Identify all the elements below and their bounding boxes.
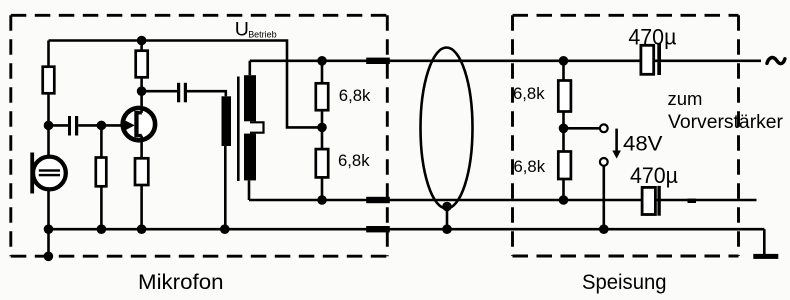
svg-text:zum: zum bbox=[668, 88, 703, 109]
resistor R6 6,8k bbox=[316, 149, 328, 177]
resistor R2 (gate) bbox=[96, 158, 107, 187]
wire source lead bbox=[140, 136, 143, 159]
wire capsule top lead bbox=[47, 125, 50, 157]
node primary ground junction bbox=[220, 224, 230, 234]
transformer TR1 secondary winding upper half bbox=[244, 75, 256, 121]
transformer TR1 primary winding bbox=[222, 96, 232, 146]
arrow 48V bbox=[612, 129, 621, 159]
wire R1 top lead bbox=[47, 41, 50, 67]
capacitor C3 470µ (top, polarized) bbox=[641, 44, 661, 76]
wire R1 bottom lead bbox=[47, 93, 50, 125]
wire cold line thick mark bbox=[688, 199, 697, 203]
node R5 top junction bbox=[317, 56, 327, 66]
resistor R1 bbox=[43, 67, 55, 94]
node R6 bottom junction bbox=[317, 195, 327, 205]
wire R6 bottom lead bbox=[321, 177, 324, 200]
node cable shield tip bbox=[442, 202, 452, 212]
resistor R3 (source) bbox=[135, 158, 148, 185]
node gate junction bbox=[97, 121, 107, 131]
wire R8 bottom lead bbox=[562, 179, 565, 200]
resistor R7 6,8k bbox=[558, 81, 571, 112]
wire drain lead bbox=[140, 77, 143, 113]
node capsule-C1 junction bbox=[44, 121, 54, 131]
enclosure dashed box Speisung bbox=[513, 15, 739, 256]
cable shield ellipse bbox=[421, 48, 473, 209]
wire U_Betrieb supply rail (top wire, down at right, to divider midpoint) bbox=[49, 41, 323, 128]
label U_Betrieb bbox=[235, 18, 277, 40]
svg-text:6,8k: 6,8k bbox=[338, 151, 370, 170]
svg-text:6,8k: 6,8k bbox=[513, 84, 545, 103]
transistor T1 JFET bbox=[123, 108, 155, 140]
transformer TR1 core bbox=[237, 77, 240, 182]
svg-text:U: U bbox=[235, 18, 249, 40]
connector pin shield (XLR) bbox=[366, 226, 390, 232]
wire to 48V upper terminal bbox=[564, 127, 600, 130]
wire R2 top lead bbox=[100, 125, 103, 157]
connector pin cold (XLR) bbox=[366, 197, 390, 203]
capacitor C4 470µ (bottom, polarized) bbox=[642, 186, 661, 216]
svg-text:470µ: 470µ bbox=[630, 163, 678, 188]
node capsule ground junction bbox=[44, 224, 54, 234]
wire secondary bottom lead bbox=[248, 180, 251, 200]
wire R7 top lead bbox=[562, 61, 565, 81]
wire R3 bottom lead bbox=[140, 185, 143, 229]
wire ground to housing bbox=[47, 229, 50, 256]
node housing ground junction bbox=[44, 251, 54, 261]
wire secondary top lead bbox=[249, 61, 252, 75]
capacitor C2 (drain coupling) bbox=[177, 83, 187, 103]
wire lower terminal to ground bbox=[602, 166, 605, 229]
svg-text:6,8k: 6,8k bbox=[339, 86, 371, 105]
svg-text:6,8k: 6,8k bbox=[514, 157, 546, 176]
node R8 bottom junction bbox=[559, 195, 569, 205]
node drain rail junction bbox=[137, 36, 147, 46]
AC output symbol ~ bbox=[767, 58, 785, 64]
wire R8 top lead bbox=[562, 128, 565, 151]
wire R5 top lead bbox=[321, 61, 324, 84]
wire capsule bottom lead bbox=[47, 190, 50, 230]
wire shield drain bbox=[446, 207, 449, 230]
wire ground drop at right bbox=[763, 229, 766, 254]
svg-text:48V: 48V bbox=[623, 133, 663, 156]
wire R2 bottom lead bbox=[100, 186, 103, 229]
terminal lower 48V contact bbox=[600, 158, 608, 166]
wire C1 to gate bbox=[78, 124, 126, 127]
transformer TR1 center tap stub bbox=[250, 122, 264, 132]
wire cold line (bottom) bbox=[249, 199, 757, 202]
node shield ground junction bbox=[442, 224, 452, 234]
resistor R8 6,8k bbox=[558, 152, 571, 180]
wire ground bus bbox=[49, 228, 765, 231]
wire drain coupling line bbox=[142, 90, 177, 93]
node divider midpoint junction bbox=[317, 123, 327, 133]
resistor R4 (drain) bbox=[136, 51, 148, 78]
label zum Vorverstärker bbox=[668, 88, 784, 133]
wire gate coupling line bbox=[49, 124, 69, 127]
enclosure dashed box Mikrofon bbox=[11, 15, 388, 256]
ground symbol bbox=[753, 254, 778, 259]
wire R6 top lead bbox=[321, 127, 324, 149]
wire C2 to transformer primary bbox=[187, 91, 226, 96]
node R7 top junction bbox=[559, 56, 569, 66]
wire R4 top lead bbox=[140, 41, 143, 51]
svg-text:Betrieb: Betrieb bbox=[248, 29, 277, 40]
wire R5 bottom lead bbox=[321, 110, 324, 127]
transformer TR1 secondary winding lower half bbox=[244, 134, 256, 181]
svg-text:Speisung: Speisung bbox=[582, 270, 667, 294]
node R3 ground junction bbox=[137, 224, 147, 234]
node R7-R8 junction bbox=[559, 124, 569, 134]
svg-text:470µ: 470µ bbox=[628, 24, 676, 49]
terminal upper 48V contact bbox=[600, 124, 608, 132]
resistor R5 6,8k bbox=[316, 83, 328, 110]
capacitor C1 (gate coupling) bbox=[68, 116, 78, 136]
microphone capsule M1 bbox=[30, 153, 66, 194]
wire R7 bottom lead bbox=[562, 112, 565, 129]
wire hot line (top) bbox=[250, 59, 761, 62]
connector pin hot (XLR) bbox=[366, 58, 390, 64]
svg-text:Vorverstärker: Vorverstärker bbox=[668, 112, 784, 133]
node R2 ground junction bbox=[97, 224, 107, 234]
wire primary bottom lead bbox=[224, 146, 227, 229]
svg-text:Mikrofon: Mikrofon bbox=[138, 270, 224, 294]
node 48V ground junction bbox=[599, 224, 609, 234]
node drain coupling junction bbox=[137, 86, 147, 96]
